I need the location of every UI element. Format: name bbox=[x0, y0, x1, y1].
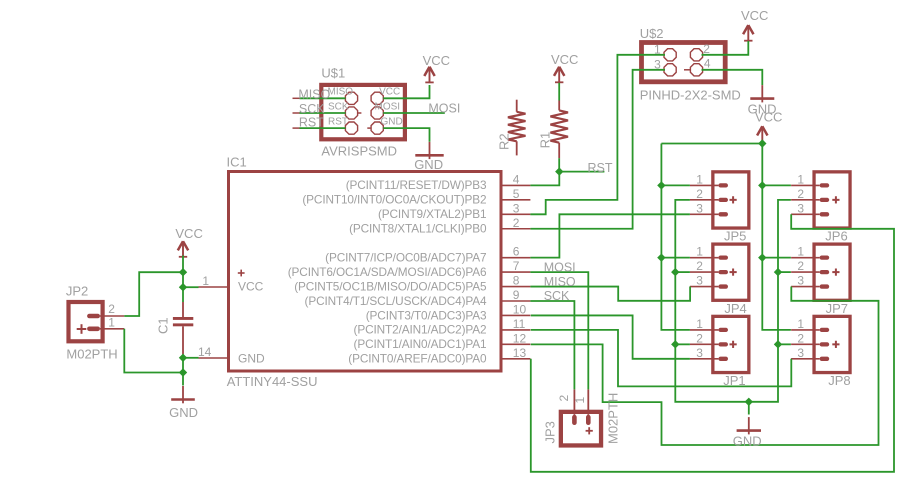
svg-text:3: 3 bbox=[797, 201, 804, 215]
svg-text:12: 12 bbox=[513, 331, 527, 345]
svg-text:MOSI: MOSI bbox=[544, 260, 576, 274]
svg-text:3: 3 bbox=[696, 201, 703, 215]
svg-text:MISO: MISO bbox=[544, 275, 576, 289]
svg-text:IC1: IC1 bbox=[227, 155, 247, 170]
svg-text:1: 1 bbox=[108, 315, 115, 329]
svg-text:VCC: VCC bbox=[551, 52, 578, 67]
svg-text:2: 2 bbox=[797, 331, 804, 345]
svg-text:2: 2 bbox=[797, 187, 804, 201]
svg-text:(PCINT8/XTAL1/CLKI)PB0: (PCINT8/XTAL1/CLKI)PB0 bbox=[349, 222, 487, 236]
svg-text:2: 2 bbox=[797, 259, 804, 273]
svg-text:GND: GND bbox=[748, 102, 777, 117]
svg-text:ATTINY44-SSU: ATTINY44-SSU bbox=[227, 374, 318, 389]
svg-text:GND: GND bbox=[414, 157, 443, 172]
svg-text:2: 2 bbox=[696, 331, 703, 345]
svg-text:1: 1 bbox=[696, 172, 703, 186]
svg-text:U$1: U$1 bbox=[321, 66, 345, 81]
svg-text:M02PTH: M02PTH bbox=[66, 346, 117, 361]
svg-text:1: 1 bbox=[797, 172, 804, 186]
svg-text:2: 2 bbox=[696, 187, 703, 201]
svg-text:3: 3 bbox=[696, 346, 703, 360]
svg-text:(PCINT0/AREF/ADC0)PA0: (PCINT0/AREF/ADC0)PA0 bbox=[348, 352, 487, 366]
svg-text:AVRISPSMD: AVRISPSMD bbox=[321, 143, 397, 158]
svg-text:2: 2 bbox=[108, 302, 115, 316]
svg-text:8: 8 bbox=[513, 274, 520, 288]
svg-text:2: 2 bbox=[557, 395, 571, 402]
svg-text:JP8: JP8 bbox=[828, 373, 850, 388]
svg-text:14: 14 bbox=[198, 345, 212, 359]
svg-text:(PCINT1/AIN0/ADC1)PA1: (PCINT1/AIN0/ADC1)PA1 bbox=[354, 337, 487, 351]
svg-text:SCK: SCK bbox=[299, 102, 325, 116]
svg-text:MISO: MISO bbox=[298, 88, 330, 102]
svg-text:13: 13 bbox=[513, 346, 527, 360]
svg-text:MISO: MISO bbox=[328, 87, 354, 98]
svg-text:(PCINT11/RESET/DW)PB3: (PCINT11/RESET/DW)PB3 bbox=[346, 178, 487, 192]
svg-text:(PCINT10/INT0/OC0A/CKOUT)PB2: (PCINT10/INT0/OC0A/CKOUT)PB2 bbox=[302, 193, 486, 207]
svg-text:VCC: VCC bbox=[238, 279, 264, 293]
svg-text:(PCINT5/OC1B/MISO/DO/ADC5)PA5: (PCINT5/OC1B/MISO/DO/ADC5)PA5 bbox=[294, 279, 487, 293]
svg-text:5: 5 bbox=[513, 187, 520, 201]
svg-text:1: 1 bbox=[696, 317, 703, 331]
svg-text:JP3: JP3 bbox=[543, 421, 558, 443]
svg-text:MOSI: MOSI bbox=[428, 102, 460, 116]
svg-text:PINHD-2X2-SMD: PINHD-2X2-SMD bbox=[640, 88, 741, 103]
svg-text:VCC: VCC bbox=[175, 226, 202, 241]
svg-text:GND: GND bbox=[733, 433, 762, 448]
svg-text:(PCINT3/T0/ADC3)PA3: (PCINT3/T0/ADC3)PA3 bbox=[366, 308, 487, 322]
svg-text:JP2: JP2 bbox=[66, 283, 88, 298]
svg-text:3: 3 bbox=[654, 58, 661, 72]
svg-text:SCK: SCK bbox=[328, 101, 349, 112]
svg-text:(PCINT4/T1/SCL/USCK/ADC4)PA4: (PCINT4/T1/SCL/USCK/ADC4)PA4 bbox=[305, 294, 487, 308]
svg-text:6: 6 bbox=[513, 245, 520, 259]
svg-text:11: 11 bbox=[513, 317, 526, 331]
svg-text:1: 1 bbox=[573, 397, 587, 404]
svg-text:1: 1 bbox=[696, 245, 703, 259]
svg-text:JP7: JP7 bbox=[826, 301, 848, 316]
svg-text:2: 2 bbox=[703, 42, 710, 56]
svg-text:RST: RST bbox=[328, 116, 348, 127]
svg-text:VCC: VCC bbox=[379, 87, 400, 98]
svg-text:3: 3 bbox=[513, 201, 520, 215]
svg-text:1: 1 bbox=[654, 42, 661, 56]
svg-text:1: 1 bbox=[797, 245, 804, 259]
svg-text:(PCINT7/ICP/OC0B/ADC7)PA7: (PCINT7/ICP/OC0B/ADC7)PA7 bbox=[325, 250, 486, 264]
svg-text:4: 4 bbox=[513, 172, 520, 186]
svg-text:RST: RST bbox=[299, 115, 324, 129]
svg-text:MOSI: MOSI bbox=[375, 101, 401, 112]
svg-text:1: 1 bbox=[202, 274, 209, 288]
svg-text:JP5: JP5 bbox=[724, 229, 746, 244]
svg-text:2: 2 bbox=[513, 216, 520, 230]
svg-text:JP4: JP4 bbox=[724, 301, 746, 316]
svg-text:VCC: VCC bbox=[741, 8, 768, 23]
svg-text:VCC: VCC bbox=[423, 53, 450, 68]
svg-text:SCK: SCK bbox=[544, 289, 570, 303]
svg-text:M02PTH: M02PTH bbox=[606, 393, 621, 444]
svg-text:R2: R2 bbox=[497, 133, 512, 150]
svg-text:3: 3 bbox=[797, 346, 804, 360]
svg-text:7: 7 bbox=[513, 259, 520, 273]
svg-text:U$2: U$2 bbox=[640, 26, 664, 41]
svg-text:R1: R1 bbox=[538, 132, 553, 149]
svg-text:1: 1 bbox=[797, 317, 804, 331]
svg-text:JP6: JP6 bbox=[825, 229, 847, 244]
svg-text:(PCINT2/AIN1/ADC2)PA2: (PCINT2/AIN1/ADC2)PA2 bbox=[354, 323, 487, 337]
svg-text:10: 10 bbox=[513, 302, 527, 316]
svg-text:GND: GND bbox=[381, 116, 403, 127]
svg-text:RST: RST bbox=[588, 161, 613, 175]
svg-text:3: 3 bbox=[696, 274, 703, 288]
svg-text:C1: C1 bbox=[156, 317, 171, 334]
svg-text:2: 2 bbox=[696, 259, 703, 273]
svg-text:4: 4 bbox=[704, 57, 711, 71]
svg-text:(PCINT9/XTAL2)PB1: (PCINT9/XTAL2)PB1 bbox=[378, 207, 487, 221]
svg-text:GND: GND bbox=[169, 405, 198, 420]
svg-text:(PCINT6/OC1A/SDA/MOSI/ADC6)PA6: (PCINT6/OC1A/SDA/MOSI/ADC6)PA6 bbox=[288, 265, 487, 279]
svg-text:GND: GND bbox=[238, 352, 265, 366]
svg-text:3: 3 bbox=[797, 274, 804, 288]
svg-text:9: 9 bbox=[513, 288, 520, 302]
